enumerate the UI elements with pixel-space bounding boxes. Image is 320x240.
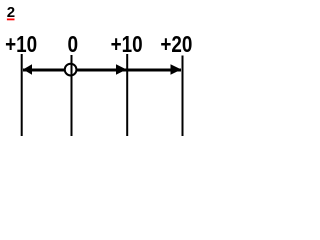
svg-text:+10: +10 [5, 31, 37, 57]
vertical line 1 [21, 54, 23, 136]
vertical line 4 [182, 56, 184, 137]
svg-text:2: 2 [7, 4, 15, 21]
arrowhead right at +20 [171, 64, 182, 75]
arrowhead right at +10 [116, 64, 127, 75]
vertical line 3 [126, 54, 128, 136]
svg-text:+20: +20 [160, 31, 192, 57]
svg-text:+10: +10 [111, 31, 143, 57]
vertical line 2 (through node) [71, 55, 73, 136]
horizontal wire [23, 69, 181, 72]
heading 2 (red, underlined) [7, 4, 15, 21]
svg-text:0: 0 [68, 31, 79, 57]
arrowhead left [23, 64, 32, 75]
node circle at 0 [65, 64, 77, 76]
